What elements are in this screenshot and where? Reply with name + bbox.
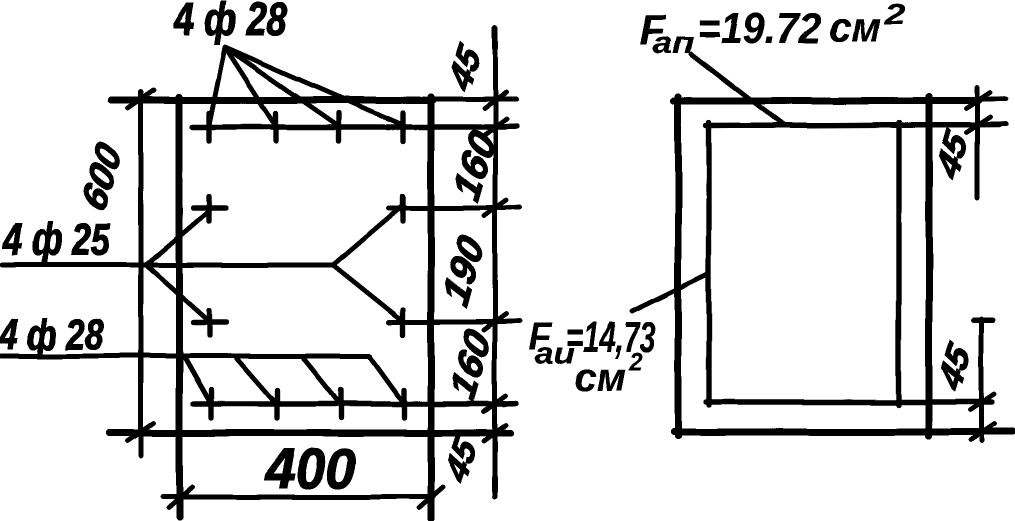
dimension chain line right of left section <box>493 28 498 497</box>
chain tick y322 <box>484 314 506 330</box>
callout branch to R10 <box>237 359 277 405</box>
rebar row mid-lower: left bar <box>193 319 226 324</box>
callout branch to R12 <box>370 357 404 404</box>
label Fai area <box>529 313 655 400</box>
right section outer: top edge <box>674 98 978 105</box>
tick right bottom y432 <box>970 424 994 440</box>
svg-text:45: 45 <box>439 430 485 490</box>
svg-text:ап: ап <box>652 25 694 60</box>
rebar R12 <box>401 390 406 418</box>
rebar R10 <box>274 390 279 418</box>
right section inner: left edge <box>706 123 711 405</box>
tick 400 right <box>419 487 443 508</box>
chain tick y100 <box>484 92 506 108</box>
svg-text:4 ф 28: 4 ф 28 <box>173 0 287 45</box>
tick right bottom y402 <box>970 394 994 410</box>
svg-text:2: 2 <box>884 0 907 31</box>
svg-text:600: 600 <box>74 136 130 218</box>
callout Fap leader <box>691 54 783 125</box>
tick 600 top <box>128 90 154 108</box>
rebar R8 <box>400 310 405 335</box>
rebar row top line <box>192 126 516 127</box>
right section inner: top edge <box>706 125 999 126</box>
rebar R3 <box>336 113 341 141</box>
tick right top y125 <box>966 117 990 133</box>
top bar right bottom dim <box>973 318 993 323</box>
svg-text:400: 400 <box>264 437 356 501</box>
callout 4f28 bottom leader line <box>2 354 370 359</box>
right section outer: bottom edge <box>674 429 1012 436</box>
svg-text:=19.72: =19.72 <box>697 4 821 53</box>
dimension line right bottom 45 <box>979 319 984 441</box>
svg-text:4 ф 28: 4 ф 28 <box>0 311 103 359</box>
chain bottom end blob <box>492 478 498 491</box>
callout 4f25 branch to R5 <box>146 211 209 265</box>
svg-text:см: см <box>574 356 626 400</box>
rebar row mid-lower: right tick line <box>389 321 520 322</box>
svg-text:45: 45 <box>933 336 979 398</box>
rebar row mid-upper: left bar <box>193 205 226 210</box>
callout branch to R11 <box>304 359 341 405</box>
rebar R4 <box>400 113 405 141</box>
right section inner: bottom edge <box>706 399 992 404</box>
svg-text:190: 190 <box>435 229 492 313</box>
rebar R6 <box>400 196 405 221</box>
rebar R9 <box>208 390 213 418</box>
dimension line right top 45 <box>975 88 980 198</box>
svg-text:2: 2 <box>628 347 642 377</box>
svg-text:160: 160 <box>442 323 499 407</box>
right section outer: right edge <box>926 97 933 436</box>
section outline left: bottom edge <box>110 430 510 437</box>
rebar R7 <box>206 310 211 335</box>
dimension 400 line <box>162 495 433 500</box>
callout 4f25 leader line <box>2 263 333 268</box>
rebar row mid-upper: right tick line <box>389 207 520 208</box>
callout branch to R9 <box>185 359 211 405</box>
rebar R5 <box>206 196 211 221</box>
arrow stub right top y101 <box>977 99 1006 100</box>
chain tick y433 <box>484 425 506 441</box>
rebar row bottom line <box>193 403 516 404</box>
rebar R1 <box>206 113 211 141</box>
callout 4f25 branch to R7 <box>146 265 209 321</box>
callout fan top apex lines <box>209 47 403 126</box>
section outline left: top edge extension to chain <box>433 97 516 102</box>
extension line for 600 dim <box>139 92 144 456</box>
rebar R2 <box>273 113 278 141</box>
section outline left: left edge <box>176 97 183 517</box>
tick 400 left <box>168 487 192 508</box>
svg-text:4 ф 25: 4 ф 25 <box>2 214 111 265</box>
svg-text:45: 45 <box>443 38 489 98</box>
tick right top y101 <box>966 93 990 109</box>
callout 4f25 branch to R8 <box>333 265 404 322</box>
section outline left: right edge <box>428 97 435 519</box>
callout Fai leader <box>632 274 708 311</box>
callout 4f25 branch to R6 <box>333 206 402 265</box>
svg-text:см: см <box>829 3 881 50</box>
tick 600 bottom <box>128 423 154 441</box>
rebar R11 <box>338 390 343 418</box>
right section outer: left edge <box>675 97 682 436</box>
section outline left: top edge <box>112 97 433 104</box>
chain top end arrowhead <box>492 29 498 48</box>
chain tick y404 <box>484 396 506 412</box>
arrow stub right top y125 <box>977 124 1006 125</box>
chain tick y208 <box>484 200 506 216</box>
right section inner: right edge <box>896 123 901 405</box>
label Fap area <box>639 0 906 60</box>
chain tick y127 <box>484 119 506 135</box>
